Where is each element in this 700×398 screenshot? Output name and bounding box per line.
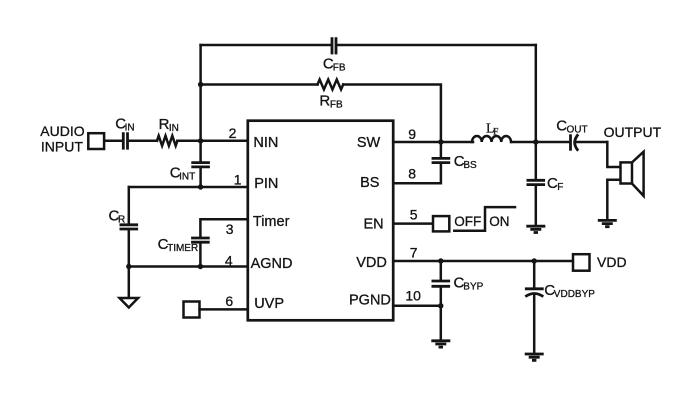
label CBS — [454, 153, 477, 171]
junction node PIN — [198, 184, 203, 189]
pin number 3 — [226, 221, 234, 237]
svg-text:F: F — [557, 182, 563, 193]
pin number 6 — [225, 293, 233, 309]
label CVDDBYP — [544, 282, 595, 300]
label CBYP — [454, 275, 484, 293]
junction node VDD-CVDDBYP — [532, 258, 537, 263]
svg-text:AUDIO: AUDIO — [40, 123, 84, 139]
junction node AGND-CR — [126, 264, 131, 269]
svg-text:R: R — [118, 215, 125, 226]
wire: CFB top feedback horizontal — [201, 44, 536, 47]
wire: pin 5 EN to switch box — [393, 222, 433, 225]
svg-text:6: 6 — [225, 293, 233, 309]
connector square: VDD — [573, 254, 590, 271]
junction node output — [533, 139, 538, 144]
svg-text:2: 2 — [229, 125, 237, 141]
svg-text:3: 3 — [226, 221, 234, 237]
IC U1 body — [248, 121, 393, 321]
capacitor CFB — [332, 37, 336, 54]
junction node PGND-CBYP — [438, 303, 443, 308]
wire: pin 10 PGND row — [393, 305, 441, 308]
svg-text:ON: ON — [489, 214, 509, 229]
wire: input to CIN — [104, 140, 122, 143]
svg-text:OUT: OUT — [567, 125, 588, 136]
svg-text:INT: INT — [179, 171, 195, 182]
wire: pin 8 BS row up to CBS — [393, 164, 441, 183]
inductor LF — [472, 136, 511, 142]
capacitor CBS — [432, 158, 451, 162]
connector square: EN — [433, 216, 449, 231]
wire: UVP square to pin 6 — [200, 308, 248, 311]
wire: RFB feedback row — [201, 85, 441, 143]
svg-text:F: F — [493, 127, 498, 137]
IC pin name PIN — [254, 176, 278, 192]
ground: triangle under CR — [120, 298, 139, 308]
svg-text:1: 1 — [234, 172, 242, 188]
wire: pin 3 Timer to CTIMER — [200, 219, 247, 266]
IC pin name AGND — [251, 256, 293, 272]
svg-text:EN: EN — [364, 217, 384, 233]
svg-text:9: 9 — [408, 126, 416, 142]
svg-text:UVP: UVP — [254, 296, 284, 312]
svg-text:BYP: BYP — [463, 282, 483, 293]
ground: under CVDDBYP — [525, 354, 544, 360]
svg-text:BS: BS — [360, 175, 379, 191]
wire: VDD node down through CBYP to ground — [440, 261, 443, 341]
pin number 4 — [225, 252, 233, 268]
ground: under speaker — [598, 220, 617, 226]
connector square: UVP — [184, 302, 200, 318]
svg-text:PGND: PGND — [349, 293, 391, 309]
connector square: audio input — [88, 133, 104, 149]
label COUT — [556, 118, 587, 136]
svg-text:VDDBYP: VDDBYP — [554, 289, 595, 300]
wire: CFB right vertical to output node — [535, 45, 538, 142]
IC pin name EN — [364, 217, 384, 233]
svg-text:FB: FB — [330, 100, 343, 111]
wire: VDD node down through CVDDBYP to ground — [533, 261, 536, 354]
label AUDIO INPUT — [40, 123, 84, 155]
label OFF — [454, 214, 481, 229]
wire: output node down through CF to ground — [535, 142, 538, 226]
label OUTPUT — [604, 124, 662, 140]
resistor RIN — [157, 136, 177, 146]
svg-text:R: R — [319, 93, 330, 110]
label CIN — [115, 115, 134, 133]
label CR — [109, 208, 126, 226]
IC pin name PGND — [349, 293, 391, 309]
wire: CR branch vertical — [128, 187, 131, 298]
wire: pin 4 AGND row — [129, 265, 248, 268]
capacitor CBYP — [432, 281, 451, 286]
wire: pin 7 VDD row — [393, 260, 573, 263]
svg-text:VDD: VDD — [356, 255, 387, 271]
label RIN — [159, 116, 179, 134]
svg-text:AGND: AGND — [251, 256, 293, 272]
wire: speaker lower terminal to ground — [607, 180, 620, 220]
speaker — [621, 152, 644, 196]
capacitor CTIMER — [191, 238, 210, 242]
junction node NIN — [198, 138, 203, 143]
pin number 7 — [410, 245, 418, 261]
wire: CIN to RIN — [129, 140, 157, 143]
wire: LF to COUT — [512, 141, 570, 144]
capacitor CVDDBYP (polarized) — [525, 289, 544, 297]
capacitor CF — [527, 180, 546, 184]
svg-text:PIN: PIN — [254, 176, 278, 192]
wire: output corner down to speaker — [607, 142, 620, 167]
capacitor CINT — [191, 163, 210, 167]
svg-text:BS: BS — [463, 160, 477, 171]
junction node SW — [438, 139, 443, 144]
ground: under CF — [526, 226, 545, 232]
pin number 5 — [410, 207, 418, 223]
label RFB — [319, 93, 343, 111]
pin number 10 — [405, 287, 421, 303]
svg-text:Timer: Timer — [253, 214, 290, 230]
IC pin name Timer — [253, 214, 290, 230]
svg-text:4: 4 — [225, 252, 233, 268]
svg-text:10: 10 — [405, 287, 421, 303]
capacitor CR — [120, 225, 139, 229]
svg-text:SW: SW — [357, 135, 381, 151]
svg-text:INPUT: INPUT — [41, 139, 83, 155]
label ON — [489, 214, 509, 229]
wire: left feedback vertical (node NIN) — [199, 45, 202, 187]
resistor RFB — [318, 80, 344, 90]
pin number 1 — [234, 172, 242, 188]
svg-text:FB: FB — [333, 63, 346, 74]
junction node AGND-CTIMER — [198, 264, 203, 269]
pin number 8 — [408, 166, 416, 182]
svg-text:IN: IN — [125, 122, 135, 133]
ground: under CBYP — [431, 341, 450, 347]
svg-text:7: 7 — [410, 245, 418, 261]
label CINT — [170, 164, 196, 182]
label CTIMER — [158, 236, 199, 254]
IC pin name NIN — [253, 135, 278, 151]
label CF — [547, 175, 563, 193]
wire: SW node down to CBS — [440, 142, 443, 157]
label VDD — [597, 254, 627, 270]
junction node RFB-left — [198, 82, 203, 87]
junction node VDD-CBYP — [438, 258, 443, 263]
capacitor COUT (polarized) — [571, 134, 579, 150]
svg-text:IN: IN — [169, 123, 179, 134]
wire: RIN to pin 2 NIN — [177, 140, 247, 143]
label LF — [486, 122, 498, 138]
svg-text:TIMER: TIMER — [167, 243, 198, 254]
svg-text:VDD: VDD — [597, 254, 627, 270]
pin number 2 — [229, 125, 237, 141]
wire: pin 9 SW to LF — [393, 141, 473, 144]
IC pin name UVP — [254, 296, 284, 312]
svg-text:NIN: NIN — [253, 135, 278, 151]
wire: pin 1 PIN row — [129, 186, 248, 189]
wire: COUT to output corner — [575, 141, 608, 144]
IC pin name VDD — [356, 255, 387, 271]
svg-text:OUTPUT: OUTPUT — [604, 124, 662, 140]
label CFB — [323, 56, 346, 74]
svg-text:5: 5 — [410, 207, 418, 223]
svg-text:8: 8 — [408, 166, 416, 182]
switch step symbol — [454, 207, 515, 231]
IC pin name SW — [357, 135, 381, 151]
IC pin name BS — [360, 175, 379, 191]
capacitor CIN — [123, 132, 127, 149]
svg-text:OFF: OFF — [454, 214, 481, 229]
pin number 9 — [408, 126, 416, 142]
